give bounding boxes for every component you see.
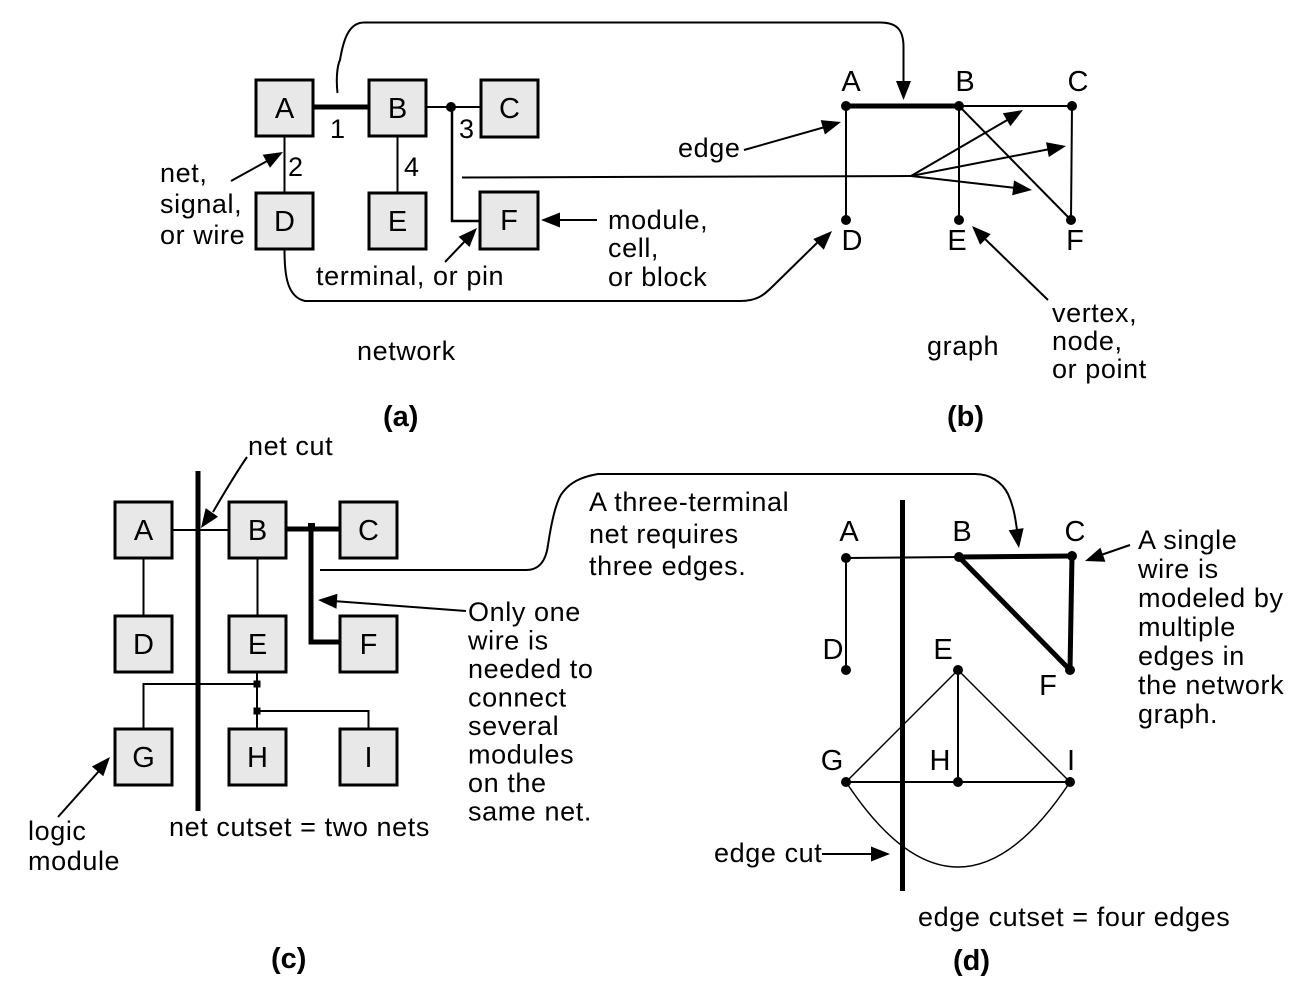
svg-text:1: 1 [330, 114, 346, 144]
vertex H (d) [930, 745, 963, 787]
vertex C (d) [1065, 516, 1086, 561]
svg-text:the network: the network [1138, 670, 1284, 700]
svg-text:or wire: or wire [160, 220, 245, 250]
svg-text:or point: or point [1052, 354, 1147, 384]
svg-text:3: 3 [459, 114, 475, 144]
module I (c) [340, 729, 397, 785]
label: vertex, node, or point [1052, 298, 1147, 384]
svg-text:H: H [247, 742, 268, 774]
module C (c) [340, 502, 397, 558]
module H (c) [229, 729, 286, 785]
wire: leader line from net 3 to graph (b) [462, 176, 911, 178]
edge E-I (d) [958, 670, 1070, 782]
svg-text:node,: node, [1052, 326, 1123, 356]
vertex D [841, 215, 862, 257]
vertex F [1066, 215, 1084, 257]
junction square on three-terminal net [308, 523, 315, 530]
edge A-B (thick) [846, 104, 959, 109]
svg-text:4: 4 [404, 152, 420, 182]
vertex C [1067, 66, 1088, 111]
edge C-F [1071, 106, 1072, 220]
note: only one wire [467, 597, 594, 827]
svg-text:edges in: edges in [1138, 641, 1245, 671]
svg-text:edge cutset = four edges: edge cutset = four edges [918, 902, 1230, 932]
fan line to edge C-F [911, 142, 1066, 176]
svg-text:cell,: cell, [608, 233, 659, 263]
edge A-B (d) [846, 557, 959, 558]
wire B-C thick three-terminal net [286, 527, 340, 532]
vertex E (d) [933, 634, 963, 675]
svg-text:G: G [132, 742, 155, 774]
label: module, cell, or block [608, 205, 708, 292]
arrow from edge label to vertex A area [744, 120, 841, 150]
svg-text:C: C [358, 515, 379, 547]
svg-text:F: F [1066, 225, 1084, 257]
svg-text:(a): (a) [383, 401, 418, 433]
svg-text:several: several [468, 711, 559, 741]
module B (c) [229, 502, 286, 558]
edge G-I arc (d) [846, 782, 1070, 867]
svg-text:on the: on the [468, 768, 547, 798]
arrow from net cut label to cut point [201, 457, 247, 528]
arrow from net label to wire 2 [231, 152, 283, 181]
svg-text:C: C [1068, 66, 1089, 98]
svg-text:D: D [133, 629, 154, 661]
svg-text:C: C [1065, 516, 1086, 548]
svg-text:net requires: net requires [589, 519, 739, 549]
svg-text:2: 2 [288, 152, 304, 182]
junction dot net 3 [446, 102, 456, 112]
edge C-F thick (d) [1070, 556, 1072, 670]
edge B-C [959, 105, 1072, 107]
wire E down through junctions to H [256, 672, 258, 729]
vertex A [841, 66, 861, 111]
svg-text:needed to: needed to [468, 654, 594, 684]
svg-text:module: module [28, 846, 120, 876]
arrow from logic module to G [58, 757, 110, 817]
svg-text:A: A [841, 66, 861, 98]
svg-text:H: H [930, 745, 951, 777]
edge B-E [958, 106, 960, 220]
svg-text:signal,: signal, [160, 189, 242, 219]
edge G-E (d) [846, 670, 958, 782]
svg-text:modules: modules [468, 740, 574, 770]
svg-text:terminal, or pin: terminal, or pin [316, 261, 504, 291]
wire net 4 (B-E) [397, 136, 399, 193]
wire net 3 (junction down to F) [452, 107, 480, 221]
svg-text:B: B [955, 66, 974, 98]
edge E-H (d) [957, 670, 959, 782]
leader from thick net to three-terminal note [320, 474, 975, 570]
svg-text:graph.: graph. [1138, 699, 1218, 729]
module B [369, 80, 426, 136]
svg-text:(d): (d) [953, 945, 990, 977]
svg-text:D: D [274, 206, 295, 238]
edge A-D (d) [845, 558, 847, 670]
module A [256, 80, 313, 136]
svg-text:A: A [839, 516, 859, 548]
wire net 1 (thick, A-B) [313, 105, 369, 110]
svg-text:F: F [1039, 670, 1057, 702]
vertex B [954, 66, 975, 111]
module D [256, 193, 313, 249]
svg-text:E: E [947, 225, 966, 257]
svg-text:three edges.: three edges. [589, 551, 746, 581]
svg-text:A three-terminal: A three-terminal [589, 487, 789, 517]
svg-text:G: G [821, 745, 844, 777]
svg-text:E: E [933, 634, 952, 666]
svg-text:logic: logic [28, 816, 87, 846]
svg-text:same net.: same net. [468, 797, 592, 827]
vertex F (d) [1039, 665, 1075, 702]
wire G riser to junction [144, 684, 258, 729]
fan line to edge B-C [911, 110, 1023, 176]
svg-text:net cut: net cut [248, 431, 333, 461]
svg-text:wire is: wire is [467, 626, 549, 656]
module C [481, 80, 538, 137]
svg-text:A single: A single [1138, 525, 1237, 555]
edge B-C thick (d) [959, 556, 1072, 557]
svg-text:D: D [842, 225, 863, 257]
vertex D (d) [823, 634, 851, 675]
edge cut line [900, 500, 905, 891]
svg-text:(b): (b) [947, 401, 984, 433]
edge A-D [845, 106, 847, 220]
svg-text:net cutset = two nets: net cutset = two nets [169, 812, 430, 842]
wire B to junction to C [426, 106, 481, 108]
svg-text:B: B [248, 515, 267, 547]
svg-text:I: I [1067, 745, 1075, 777]
wire I riser to junction [257, 711, 369, 729]
svg-text:E: E [248, 629, 267, 661]
wire A-D (c) [143, 558, 145, 616]
module A (c) [115, 502, 172, 558]
wire net 2 (A-D) [284, 136, 286, 193]
svg-text:net,: net, [160, 158, 207, 188]
svg-text:module,: module, [608, 205, 708, 235]
svg-text:multiple: multiple [1138, 612, 1236, 642]
label: logic module [28, 816, 120, 876]
module F [480, 192, 538, 249]
junction dot upper [254, 681, 261, 688]
arrow from module label to F [541, 213, 597, 228]
vertex I (d) [1065, 745, 1075, 787]
arrow from terminal label to F pin [445, 228, 477, 262]
svg-text:C: C [499, 93, 520, 125]
fan line to edge B-F [911, 176, 1032, 195]
svg-text:F: F [500, 205, 518, 237]
arrow from edge cut label to cut line [822, 847, 890, 862]
svg-text:F: F [360, 629, 378, 661]
svg-text:connect: connect [468, 683, 567, 713]
junction dot lower [254, 708, 261, 715]
svg-text:I: I [364, 742, 372, 774]
svg-text:A: A [275, 93, 295, 125]
svg-text:vertex,: vertex, [1052, 298, 1137, 328]
svg-text:wire is: wire is [1137, 554, 1219, 584]
arrowhead from note onto edge B-C (d) [975, 474, 1024, 548]
module E [369, 193, 426, 249]
svg-text:B: B [952, 516, 971, 548]
module G (c) [115, 729, 172, 785]
svg-text:modeled by: modeled by [1138, 583, 1284, 613]
wire: curve from module D bottom to graph vertex D [285, 240, 821, 301]
svg-text:or block: or block [608, 262, 707, 292]
svg-text:edge: edge [678, 133, 740, 163]
note: a single wire is modeled by multiple edges [1137, 525, 1284, 729]
svg-text:(c): (c) [271, 943, 306, 975]
module E (c) [229, 616, 286, 672]
vertex G (d) [821, 745, 851, 787]
wire: thick elbow down to F [311, 529, 340, 642]
svg-text:edge cut: edge cut [714, 838, 822, 868]
svg-text:Only one: Only one [468, 597, 581, 627]
svg-text:A: A [134, 515, 154, 547]
svg-text:D: D [823, 634, 844, 666]
module F (c) [340, 616, 397, 672]
arrow from single-wire note to vertex C [1085, 545, 1130, 562]
svg-text:network: network [357, 336, 456, 366]
vertex A (d) [839, 516, 859, 563]
arrow from vertex label to vertex E [972, 226, 1048, 300]
arrowhead pointing down at edge A-B [896, 81, 911, 100]
vertex E [947, 215, 966, 257]
arrow from Only-one note to thick wire [318, 594, 466, 611]
vertex B (d) [952, 516, 971, 562]
note: a three-terminal net requires three edges [589, 487, 789, 581]
wire A-B (c) [172, 529, 229, 531]
svg-text:B: B [388, 93, 407, 125]
arrowhead pointing at vertex D [813, 231, 832, 250]
module D (c) [115, 616, 172, 672]
wire: curve from net 1 over the top to graph edge A-B [337, 23, 904, 94]
wire B-E (c) [257, 558, 259, 616]
svg-text:graph: graph [927, 331, 999, 361]
net cut line [196, 471, 201, 811]
edge B-F [959, 106, 1071, 220]
label: net, signal, or wire [160, 158, 245, 250]
edge G-I straight (d) [846, 781, 1070, 783]
edge B-F thick (d) [959, 557, 1070, 670]
svg-text:E: E [388, 206, 407, 238]
